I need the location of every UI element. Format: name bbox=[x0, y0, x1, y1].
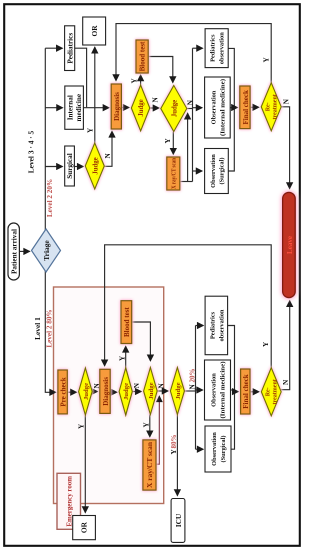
judge A bbox=[85, 143, 104, 189]
svg-text:Re-: Re- bbox=[266, 387, 272, 396]
Pediatrics box bbox=[65, 26, 75, 71]
svg-text:Observation: Observation bbox=[210, 154, 217, 188]
wire merge R from Obs Surgical bbox=[228, 48, 234, 171]
wire triage right branch (Level 3-4-5) bbox=[44, 48, 46, 230]
svg-text:Judge: Judge bbox=[83, 383, 90, 400]
wire re-treatment L N to Leave bbox=[281, 301, 290, 390]
svg-text:Patient arrival: Patient arrival bbox=[10, 229, 18, 274]
Observation Internal medicine box left bbox=[205, 360, 231, 420]
wire judge 2 Y to X-ray R bbox=[172, 132, 174, 155]
Final check box right bbox=[240, 86, 250, 129]
wire Diagnosis R to judge 1 bbox=[122, 107, 130, 109]
judge C bbox=[119, 368, 132, 415]
svg-text:Judge: Judge bbox=[123, 383, 130, 400]
svg-text:Y: Y bbox=[263, 57, 271, 63]
wire Final check R to re-treatment R bbox=[250, 106, 258, 108]
svg-text:treatment: treatment bbox=[273, 94, 279, 119]
Observation Surgical box right bbox=[205, 149, 229, 194]
Blood test box right bbox=[136, 40, 148, 73]
svg-text:Re-: Re- bbox=[266, 102, 272, 111]
svg-text:observation: observation bbox=[218, 309, 225, 341]
re-treatment diamond left bbox=[261, 368, 281, 416]
Observation Surgical box left bbox=[205, 426, 231, 472]
svg-text:Y: Y bbox=[87, 127, 95, 133]
svg-text:(Surgical): (Surgical) bbox=[220, 436, 227, 463]
svg-text:Triage: Triage bbox=[42, 240, 51, 261]
Surgical box bbox=[65, 146, 75, 186]
svg-text:N: N bbox=[104, 153, 112, 159]
svg-text:N: N bbox=[158, 383, 166, 389]
Diagnosis box right bbox=[111, 84, 121, 129]
svg-text:Y: Y bbox=[118, 355, 126, 361]
judge B bbox=[79, 368, 93, 415]
emergency group red frame bbox=[54, 287, 164, 504]
wire judge D Y to X-ray L bbox=[149, 415, 151, 437]
svg-text:Judge: Judge bbox=[171, 100, 178, 117]
wire Surgical to judge A bbox=[75, 166, 84, 168]
wire Blood test L return to judge D bbox=[132, 322, 151, 361]
wire distribution line R bbox=[192, 48, 194, 181]
svg-text:Y: Y bbox=[131, 78, 139, 84]
svg-text:medicine: medicine bbox=[75, 94, 83, 122]
svg-text:X ray/CT scan: X ray/CT scan bbox=[147, 442, 154, 488]
wire judge E N down bbox=[185, 390, 196, 392]
wire judge A N to Diagnosis R bbox=[104, 131, 112, 166]
svg-text:(Internal medicine): (Internal medicine) bbox=[220, 362, 227, 419]
svg-text:OR: OR bbox=[80, 521, 89, 533]
svg-text:treatment: treatment bbox=[273, 379, 279, 404]
wire merge R from Obs IM bbox=[230, 107, 234, 109]
svg-text:Internal: Internal bbox=[67, 95, 75, 120]
wire Pre check to judge B bbox=[68, 391, 77, 393]
wire X-ray L return (maroon) to judge D bbox=[156, 396, 159, 464]
svg-text:Surgical: Surgical bbox=[66, 153, 74, 179]
wire judge D N to judge E bbox=[157, 390, 168, 392]
wire merge R into Final check R bbox=[234, 107, 237, 109]
judge 1 bbox=[131, 85, 149, 131]
wire judge 1 Y to Blood test R bbox=[140, 75, 142, 85]
wire judge C Y to Blood test L bbox=[125, 346, 127, 367]
svg-text:Observation: Observation bbox=[211, 90, 218, 124]
svg-text:N: N bbox=[93, 383, 101, 389]
svg-text:N: N bbox=[152, 97, 160, 103]
svg-text:Diagnosis: Diagnosis bbox=[102, 377, 110, 406]
wire Final check L to re-treatment L bbox=[250, 391, 259, 393]
wire merge L from Obs IM bbox=[231, 389, 235, 391]
triage bbox=[32, 229, 61, 272]
svg-text:Y: Y bbox=[77, 423, 85, 429]
wire X-ray R down bbox=[180, 181, 193, 183]
judge E bbox=[170, 368, 184, 415]
svg-text:Y: Y bbox=[170, 449, 178, 455]
X-ray CT scan box right bbox=[167, 157, 180, 190]
svg-text:Pediatrics: Pediatrics bbox=[209, 311, 216, 339]
svg-text:Y: Y bbox=[164, 138, 172, 144]
Pediatrics observation box right bbox=[205, 29, 228, 68]
svg-text:Level 1: Level 1 bbox=[33, 317, 42, 340]
wire drop to Pediatrics bbox=[45, 47, 62, 49]
svg-text:Blood test: Blood test bbox=[139, 41, 147, 71]
X-ray CT scan box left bbox=[143, 440, 156, 490]
OR box right bbox=[83, 17, 106, 45]
wire Pediatrics out joining bbox=[75, 48, 87, 107]
svg-text:ICU: ICU bbox=[174, 513, 183, 527]
svg-text:(Surgical): (Surgical) bbox=[219, 158, 226, 185]
wire drop to Observation IM R bbox=[193, 107, 203, 109]
svg-text:Y: Y bbox=[262, 341, 270, 347]
svg-text:Judge: Judge bbox=[175, 382, 182, 399]
wire merge L into Final check L bbox=[235, 391, 239, 393]
wire drop to Internal medicine bbox=[45, 107, 62, 109]
wire Blood test R return to judge 2 bbox=[148, 57, 173, 83]
svg-text:Final check: Final check bbox=[242, 374, 250, 409]
Final check box left bbox=[241, 369, 251, 414]
svg-text:20%: 20% bbox=[189, 369, 197, 383]
wire Diagnosis L to judge C bbox=[111, 391, 117, 393]
emergency room label box bbox=[57, 473, 81, 529]
wire re-treatment L Y loop to Diagnosis L bbox=[105, 245, 272, 368]
re-treatment diamond right bbox=[261, 83, 281, 131]
Observation Internal medicine box right bbox=[205, 77, 231, 138]
svg-text:(Internal medicine): (Internal medicine) bbox=[220, 79, 227, 136]
wire triage to pre check (Level 1 branch) bbox=[45, 271, 55, 393]
Internal medicine box bbox=[65, 86, 84, 129]
wire drop to Observation Surgical R bbox=[193, 170, 203, 172]
Pediatrics observation box left bbox=[205, 296, 228, 355]
wire patient arrival to triage bbox=[19, 250, 29, 252]
svg-text:Level 3 · 4 · 5: Level 3 · 4 · 5 bbox=[27, 130, 36, 173]
OR box left bbox=[73, 516, 96, 540]
svg-text:Judge: Judge bbox=[148, 382, 155, 399]
svg-text:Pre check: Pre check bbox=[59, 377, 67, 406]
svg-text:Observation: Observation bbox=[211, 432, 218, 466]
wire drop to Observation Surgical L bbox=[196, 448, 204, 450]
wire drop to Observation IM L bbox=[196, 389, 203, 391]
judge 2 bbox=[161, 86, 187, 132]
svg-text:X ray/CT scan: X ray/CT scan bbox=[172, 157, 178, 189]
svg-text:N: N bbox=[282, 379, 290, 385]
svg-text:Y: Y bbox=[143, 422, 151, 428]
svg-text:Diagnosis: Diagnosis bbox=[113, 92, 121, 121]
wire distribution line L bbox=[195, 326, 197, 450]
Diagnosis box left bbox=[100, 369, 110, 413]
svg-text:Pediatrics: Pediatrics bbox=[66, 33, 74, 64]
svg-text:observation: observation bbox=[219, 32, 226, 64]
patient arrival bbox=[8, 223, 19, 280]
wire judge B Y to OR L bbox=[84, 415, 86, 513]
wire judge C N to judge D bbox=[132, 391, 141, 393]
judge D bbox=[144, 368, 158, 415]
svg-text:N: N bbox=[186, 99, 194, 105]
wire X-ray R return arrow to judge 2 bottom bbox=[187, 113, 189, 181]
svg-text:Blood test: Blood test bbox=[123, 307, 131, 337]
wire re-treatment R Y loop to Diagnosis R bbox=[116, 24, 271, 84]
svg-text:Judge: Judge bbox=[138, 99, 145, 116]
wire judge 2 N down bbox=[187, 108, 193, 110]
wire judge 1 N to judge 2 bbox=[150, 107, 159, 109]
svg-text:80%: 80% bbox=[170, 435, 178, 449]
svg-text:Pediatrics: Pediatrics bbox=[210, 34, 217, 62]
wire judge B N to Diagnosis L bbox=[92, 391, 97, 393]
svg-text:N: N bbox=[283, 98, 291, 104]
svg-text:OR: OR bbox=[90, 25, 99, 37]
ICU box bbox=[171, 499, 185, 543]
svg-text:N: N bbox=[133, 382, 141, 388]
svg-text:Level 2 80%: Level 2 80% bbox=[46, 309, 54, 347]
svg-text:Final check: Final check bbox=[242, 90, 250, 125]
wire drop to Surgical bbox=[45, 166, 62, 168]
wire drop to Pediatrics observation L bbox=[196, 325, 204, 327]
wire judge E Y to ICU bbox=[176, 415, 178, 496]
wire merge L from Obs Surgical bbox=[228, 326, 235, 450]
Blood test box left bbox=[121, 301, 132, 344]
svg-text:Judge: Judge bbox=[92, 157, 99, 174]
Pre check box bbox=[58, 370, 68, 414]
svg-text:N: N bbox=[189, 384, 197, 390]
wire drop to Pediatrics observation R bbox=[193, 47, 203, 49]
svg-text:Leave: Leave bbox=[286, 236, 294, 254]
wire re-treatment R N to Leave bbox=[281, 107, 290, 189]
svg-text:Observation: Observation bbox=[211, 373, 218, 407]
wire Internal medicine to Diagnosis R bbox=[84, 107, 109, 109]
Leave stadium bbox=[283, 192, 296, 297]
wire judge A Y to OR bbox=[94, 47, 96, 143]
svg-text:Level 2 20%: Level 2 20% bbox=[46, 179, 54, 217]
